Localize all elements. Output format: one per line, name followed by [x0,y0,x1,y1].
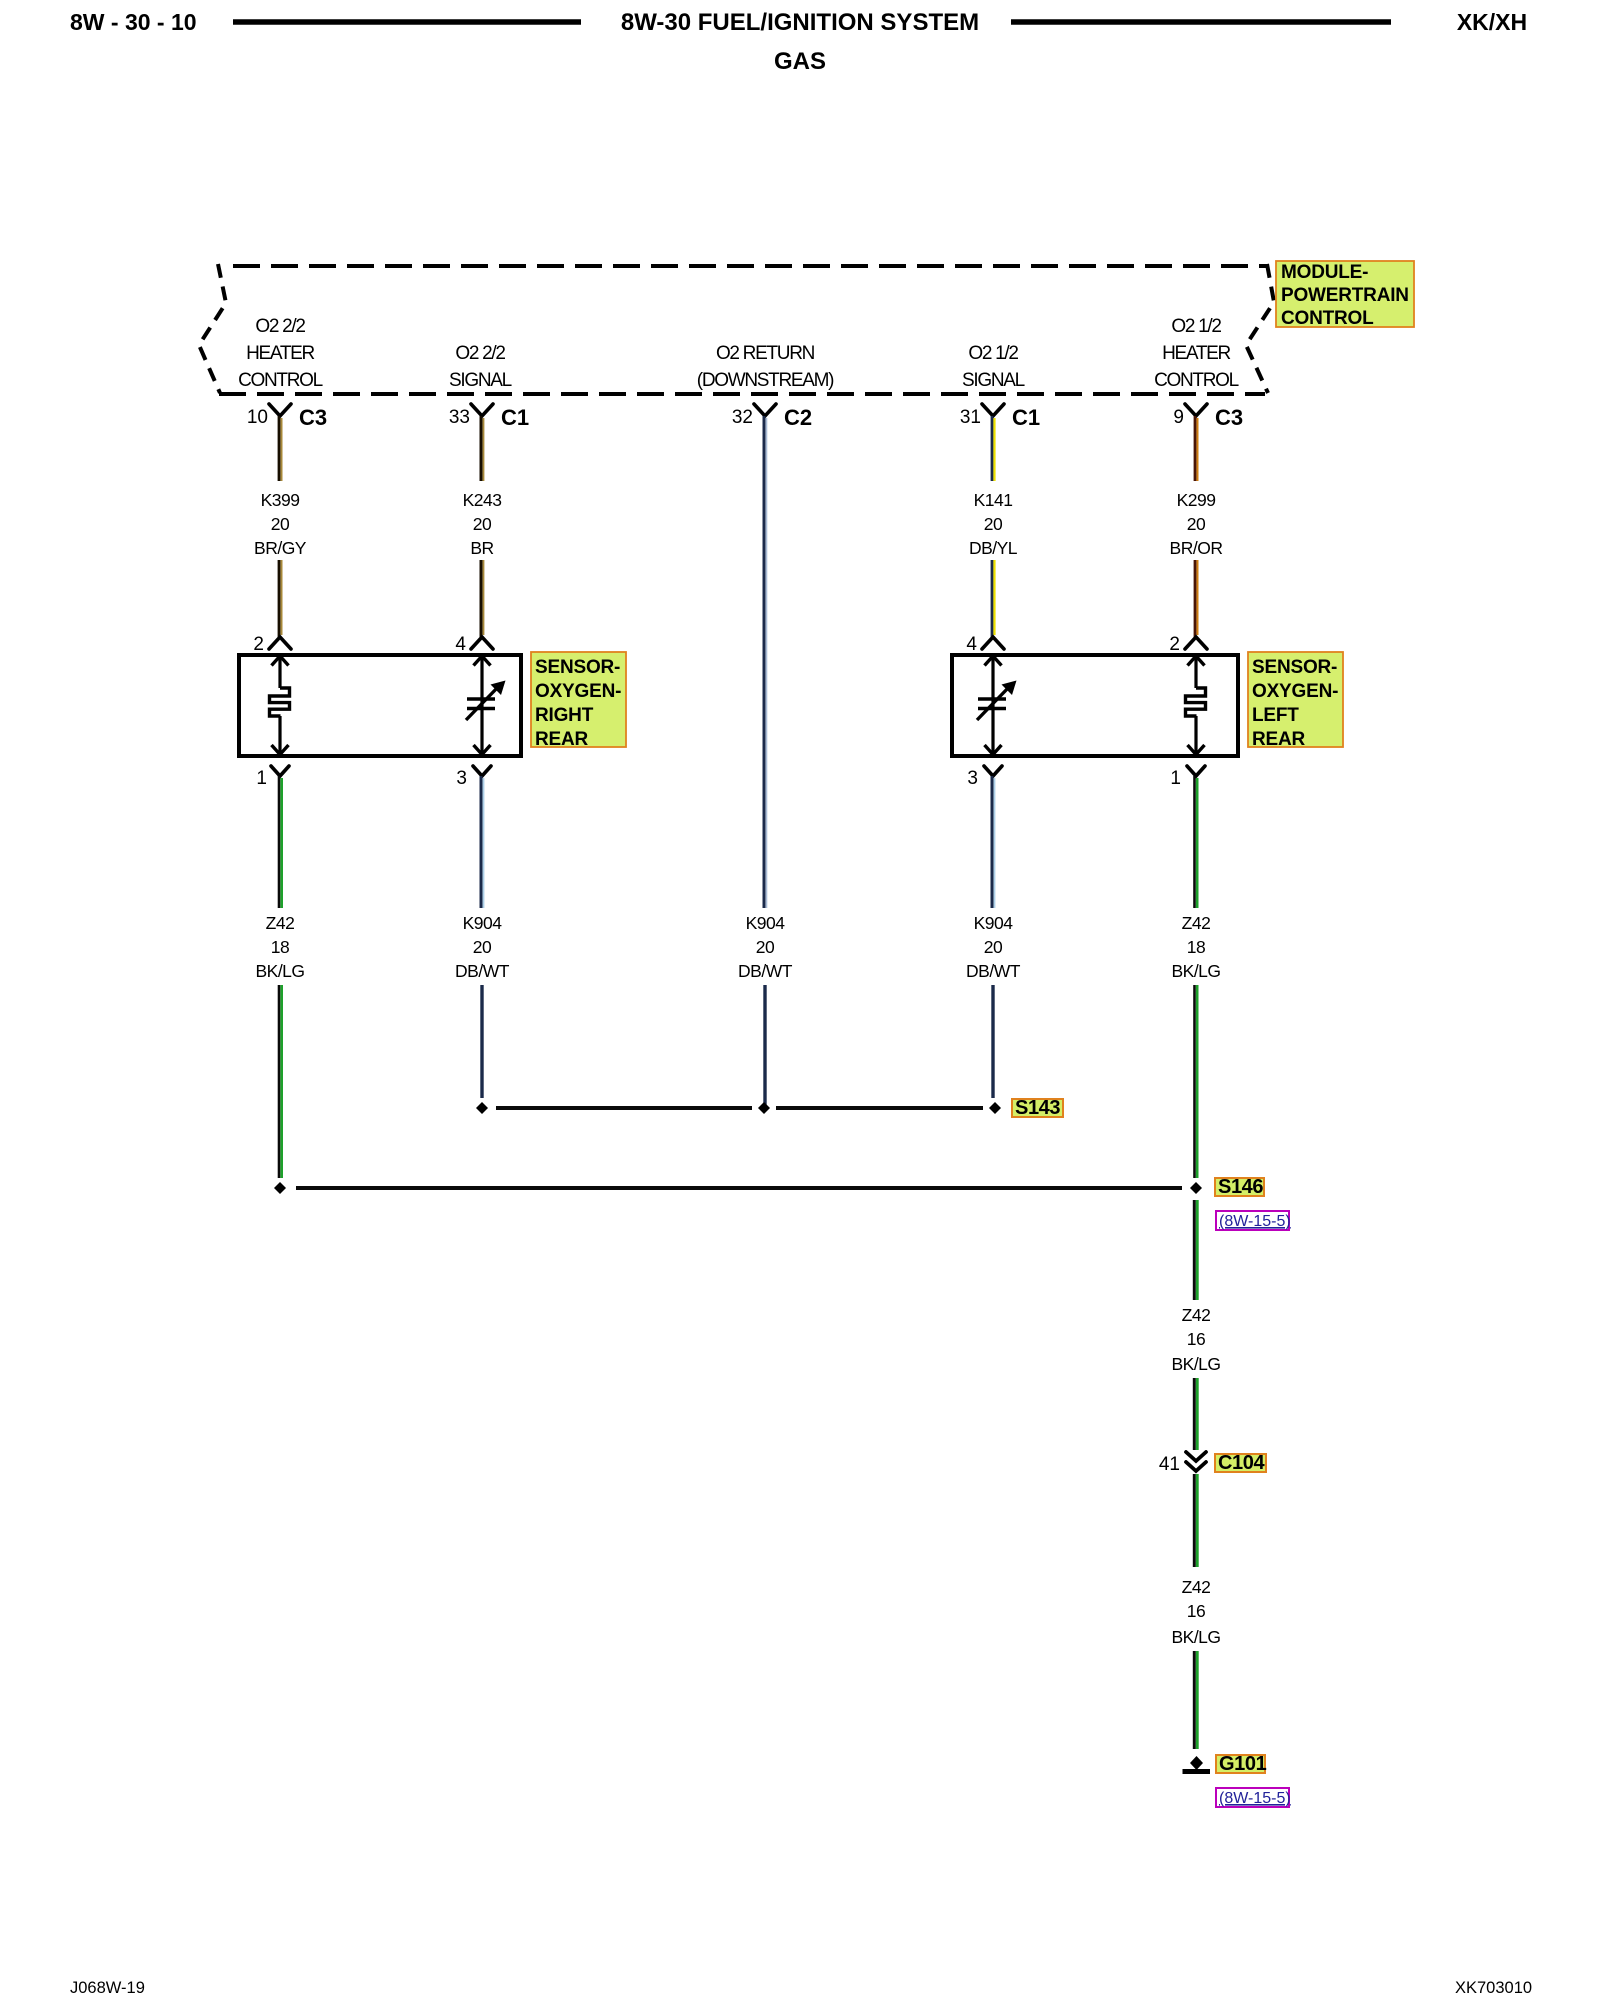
pin 31 of PCM connector C1 [960,404,1040,430]
pin 2 of left rear O2 sensor [1169,634,1207,655]
svg-text:4: 4 [966,634,977,655]
svg-text:CONTROL: CONTROL [238,370,323,391]
svg-text:8W - 30 - 10: 8W - 30 - 10 [70,9,197,35]
wire K904 20 DB/WT from pin 3 right rear sensor [481,776,484,908]
wire K904 20 DB/WT from pin 3 left rear sensor [992,776,995,908]
pin 41 of inline connector C104 [1159,1452,1206,1475]
svg-text:1: 1 [1170,768,1181,789]
svg-text:K904: K904 [974,913,1014,933]
module PCM dashed outline left torn edge [199,264,226,393]
splice label S143 [1012,1097,1063,1119]
sensor O2 right rear box U1 [239,655,521,756]
splice S143 junction diamond center [758,1102,770,1114]
splice S143 horizontal wire [496,1106,752,1110]
svg-text:SENSOR-: SENSOR- [535,657,620,678]
wire Z42 16 BK/LG segment to C104 [1194,1378,1197,1450]
svg-text:(8W-15-5): (8W-15-5) [1219,1790,1291,1807]
svg-text:C104: C104 [1218,1452,1265,1474]
svg-text:C2: C2 [784,405,812,430]
svg-text:CONTROL: CONTROL [1154,370,1239,391]
svg-text:20: 20 [1187,514,1206,534]
svg-text:CONTROL: CONTROL [1281,308,1374,329]
svg-text:20: 20 [756,937,775,957]
sensor O2 left rear box U2 [952,655,1238,756]
svg-text:Z42: Z42 [266,913,295,933]
svg-text:31: 31 [960,407,981,428]
svg-text:8W-30 FUEL/IGNITION SYSTEM: 8W-30 FUEL/IGNITION SYSTEM [621,9,979,36]
svg-text:C3: C3 [299,405,327,430]
svg-text:18: 18 [1187,937,1205,957]
wire label K141 20 DB/YL [969,490,1018,558]
wire label K904 20 DB/WT center [738,913,793,981]
page header title right [1457,9,1527,35]
ground G101 symbol [1183,1756,1211,1772]
svg-text:16: 16 [1187,1329,1205,1349]
svg-text:4: 4 [455,634,466,655]
svg-text:1: 1 [256,768,267,789]
heater element inside left rear sensor [1186,656,1206,755]
svg-text:18: 18 [271,937,289,957]
svg-text:BK/LG: BK/LG [255,961,304,981]
net label O2 1/2 SIGNAL [962,343,1025,391]
svg-text:HEATER: HEATER [246,343,314,364]
page header title center [621,9,979,75]
splice S146 junction diamond left [274,1182,286,1194]
sensor label SENSOR-OXYGEN-LEFT REAR [1248,652,1343,750]
header rule left [233,19,581,25]
wire K141 20 DB/YL lower segment [992,560,995,637]
wire K399 20 BR/GY upper segment [279,416,282,481]
wire label K243 20 BR [463,490,502,558]
svg-text:32: 32 [732,407,753,428]
pin 1 of left rear O2 sensor [1170,766,1205,789]
svg-text:BK/LG: BK/LG [1171,1627,1220,1647]
svg-text:BR/GY: BR/GY [254,538,307,558]
wire K141 20 DB/YL upper segment [992,416,995,481]
pin 4 of left rear O2 sensor [966,634,1004,655]
svg-text:C1: C1 [1012,405,1040,430]
svg-text:Z42: Z42 [1182,1305,1211,1325]
svg-text:MODULE-: MODULE- [1281,262,1368,283]
svg-text:SIGNAL: SIGNAL [449,370,512,391]
svg-text:2: 2 [1169,634,1180,655]
svg-text:C1: C1 [501,405,529,430]
pin 9 of PCM connector C3 [1173,404,1243,430]
splice S146 horizontal wire [296,1186,1182,1190]
svg-text:LEFT: LEFT [1252,705,1299,726]
svg-text:XK/XH: XK/XH [1457,9,1527,35]
svg-text:J068W-19: J068W-19 [70,1979,145,1997]
wire Z42 18 BK/LG right upper segment [1195,776,1198,908]
svg-text:20: 20 [271,514,290,534]
svg-text:REAR: REAR [1252,729,1306,750]
page footer left [70,1979,145,1997]
svg-text:OXYGEN-: OXYGEN- [1252,681,1338,702]
header rule right [1011,19,1391,25]
svg-text:DB/WT: DB/WT [455,961,510,981]
wire K904 20 DB/WT left lower segment to splice S143 [480,985,483,1098]
svg-text:S143: S143 [1015,1097,1060,1119]
svg-text:Z42: Z42 [1182,1577,1211,1597]
svg-text:20: 20 [473,937,492,957]
pin 33 of PCM connector C1 [449,404,529,430]
svg-text:(DOWNSTREAM): (DOWNSTREAM) [697,370,834,391]
heater element inside right rear sensor [270,656,290,755]
splice S143 junction diamond right [989,1102,1001,1114]
svg-text:SENSOR-: SENSOR- [1252,657,1337,678]
svg-text:C3: C3 [1215,405,1243,430]
wire Z42 16 BK/LG segment below C104 [1194,1474,1197,1567]
splice label S146 [1215,1176,1264,1198]
wire label Z42 16 BK/LG upper [1171,1305,1220,1374]
wire K904 20 DB/WT right lower segment to splice S143 [991,985,994,1098]
wire label K904 20 DB/WT left [455,913,510,981]
wire K904 20 DB/WT center lower segment [763,985,766,1107]
svg-text:BR: BR [470,538,493,558]
pin 32 of PCM connector C2 [732,404,812,430]
svg-text:HEATER: HEATER [1162,343,1230,364]
wire Z42 16 BK/LG segment to ground G101 [1194,1651,1197,1749]
svg-text:K299: K299 [1177,490,1216,510]
svg-text:3: 3 [967,768,978,789]
svg-text:20: 20 [984,937,1003,957]
svg-text:G101: G101 [1219,1753,1267,1775]
wire label K399 20 BR/GY [254,490,307,558]
svg-text:O2 2/2: O2 2/2 [255,316,305,337]
wire K299 20 BR/OR upper segment [1195,416,1198,481]
svg-text:BK/LG: BK/LG [1171,961,1220,981]
svg-text:20: 20 [984,514,1003,534]
wire K299 20 BR/OR lower segment [1195,560,1198,637]
net label O2 1/2 HEATER CONTROL [1154,316,1239,391]
module PCM dashed outline bottom edge [219,392,1265,396]
wire label K904 20 DB/WT right [966,913,1021,981]
svg-text:(8W-15-5): (8W-15-5) [1219,1213,1291,1230]
svg-text:REAR: REAR [535,729,589,750]
pin 4 of right rear O2 sensor [455,634,493,655]
module PCM dashed outline top edge [233,264,1267,268]
pin 1 of right rear O2 sensor [256,766,289,789]
net label O2 2/2 HEATER CONTROL [238,316,323,391]
svg-text:O2 1/2: O2 1/2 [968,343,1018,364]
pin 10 of PCM connector C3 [247,404,327,430]
wire label Z42 18 BK/LG left [255,913,304,981]
svg-text:DB/WT: DB/WT [738,961,793,981]
svg-text:DB/YL: DB/YL [969,538,1018,558]
svg-text:10: 10 [247,407,268,428]
page footer right [1455,1979,1532,1997]
module PCM dashed outline right torn edge [1246,264,1274,393]
reference link 8W-15-5 under S146 [1216,1211,1291,1230]
svg-text:41: 41 [1159,1454,1180,1475]
wire K399 20 BR/GY lower segment [279,560,282,637]
splice S143 junction diamond left [476,1102,488,1114]
reference link 8W-15-5 under G101 [1216,1788,1291,1807]
svg-text:2: 2 [253,634,264,655]
svg-text:K243: K243 [463,490,502,510]
svg-text:16: 16 [1187,1601,1205,1621]
svg-text:K904: K904 [746,913,786,933]
svg-text:RIGHT: RIGHT [535,705,594,726]
svg-text:O2 RETURN: O2 RETURN [716,343,815,364]
svg-text:DB/WT: DB/WT [966,961,1021,981]
pin 2 of right rear O2 sensor [253,634,291,655]
variable sense element inside left rear sensor [977,656,1017,755]
svg-text:9: 9 [1173,407,1184,428]
wire Z42 18 BK/LG right lower segment through splice S146 [1194,985,1197,1300]
wire K904 20 DB/WT center segment from pin 32 [764,416,767,908]
connector label C104 [1215,1452,1266,1474]
svg-text:3: 3 [456,768,467,789]
svg-text:BK/LG: BK/LG [1171,1354,1220,1374]
variable sense element inside right rear sensor [466,656,506,755]
splice S146 junction diamond right [1190,1182,1202,1194]
svg-text:K141: K141 [974,490,1013,510]
ground label G101 [1216,1753,1267,1775]
svg-text:GAS: GAS [774,48,826,75]
svg-text:BR/OR: BR/OR [1170,538,1223,558]
svg-text:Z42: Z42 [1182,913,1211,933]
module label MODULE-POWERTRAIN CONTROL [1276,261,1414,329]
sensor label SENSOR-OXYGEN-RIGHT REAR [531,652,626,750]
svg-text:S146: S146 [1218,1176,1263,1198]
wire Z42 18 BK/LG left lower segment to splice S146 [279,985,282,1178]
svg-text:K399: K399 [261,490,300,510]
svg-text:K904: K904 [463,913,503,933]
pin 3 of right rear O2 sensor [456,766,491,789]
svg-text:POWERTRAIN: POWERTRAIN [1281,285,1409,306]
svg-text:O2 2/2: O2 2/2 [455,343,505,364]
svg-text:20: 20 [473,514,492,534]
wire label K299 20 BR/OR [1170,490,1223,558]
wire K243 20 BR upper segment [481,416,484,481]
svg-text:OXYGEN-: OXYGEN- [535,681,621,702]
pin 3 of left rear O2 sensor [967,766,1002,789]
page header title left [70,9,197,35]
wire K243 20 BR lower segment [481,560,484,637]
wire label Z42 18 BK/LG right [1171,913,1220,981]
wire Z42 18 BK/LG left upper segment [279,776,282,908]
net label O2 RETURN (DOWNSTREAM) [697,343,834,391]
svg-text:33: 33 [449,407,470,428]
svg-text:SIGNAL: SIGNAL [962,370,1025,391]
svg-text:O2 1/2: O2 1/2 [1171,316,1221,337]
svg-text:XK703010: XK703010 [1455,1979,1532,1997]
net label O2 2/2 SIGNAL [449,343,512,391]
wire label Z42 16 BK/LG lower [1171,1577,1220,1647]
